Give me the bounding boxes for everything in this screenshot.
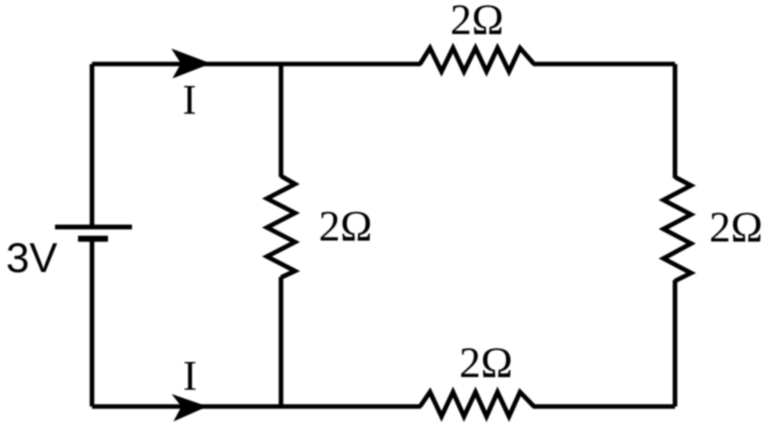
battery V1 short plate (-) [78,236,108,242]
arrow for current I on bottom wire [173,395,206,421]
wire: top wire from left corner to top resistor [92,62,421,67]
arrow for current I on top wire [173,50,210,78]
wire: left vertical from battery - down to bottom-left corner [90,239,95,407]
svg-text:2Ω: 2Ω [459,340,512,387]
svg-text:3V: 3V [6,234,57,281]
wire: middle branch lower segment from R2 down to bottom node [279,277,284,407]
wire: bottom wire from bottom-left corner to bottom resistor [92,404,421,409]
wire: middle branch upper segment from top node down to R2 [279,64,284,177]
wire: right vertical from R3 down to bottom-right corner [673,280,678,407]
wire: left vertical from battery + up to top-left corner [90,64,95,227]
svg-text:I: I [183,78,197,124]
wire: top wire from R1 to top-right corner [533,62,675,67]
resistor R2 2ohm (middle vertical) [267,176,295,278]
svg-text:2Ω: 2Ω [450,0,503,44]
resistor R3 2ohm (right vertical) [664,177,692,281]
wire: bottom wire from R4 to bottom-right corner [533,404,675,409]
svg-text:I: I [183,354,197,400]
battery V1 long plate (+) [55,225,132,230]
resistor R4 2ohm (bottom horizontal) [420,392,534,417]
resistor R1 2ohm (top horizontal) [420,48,534,72]
svg-text:2Ω: 2Ω [319,204,372,251]
wire: right vertical from top-right corner down to R3 [673,64,678,178]
svg-text:2Ω: 2Ω [709,205,762,252]
